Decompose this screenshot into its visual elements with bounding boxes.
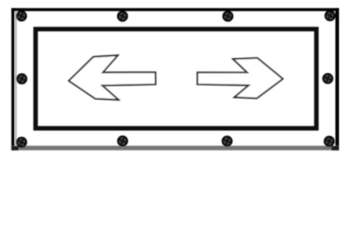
outer frame bottom-left corner darkening xyxy=(11,146,18,150)
screw top-mid-left xyxy=(118,12,127,21)
screw top-left xyxy=(17,11,26,20)
outer frame bottom edge xyxy=(11,146,339,150)
screw bottom-mid-left xyxy=(118,136,127,145)
outer frame top edge xyxy=(11,8,339,11)
screw bottom-mid-right xyxy=(222,136,231,145)
right arrow xyxy=(197,58,282,98)
left arrow xyxy=(69,55,156,100)
outer frame right edge xyxy=(335,8,339,150)
background plate xyxy=(0,0,350,160)
screw middle-right xyxy=(323,74,332,83)
screw middle-left xyxy=(17,74,26,83)
screw top-mid-right xyxy=(223,12,232,21)
screw bottom-left xyxy=(17,138,26,147)
outer frame bottom-right corner darkening xyxy=(332,146,340,150)
screw bottom-right xyxy=(325,137,334,146)
screw top-right xyxy=(325,11,334,20)
inner rectangle xyxy=(36,29,317,128)
outer frame left inner shading xyxy=(15,10,17,147)
outer frame left edge xyxy=(11,8,14,150)
